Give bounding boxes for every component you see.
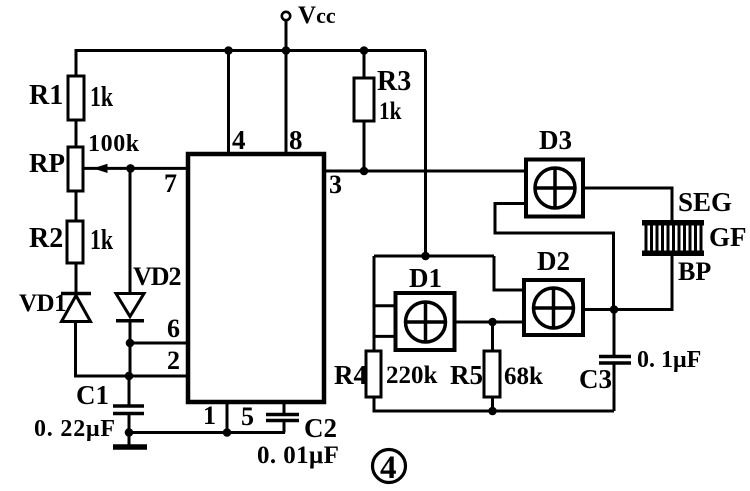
node pin1 junction (223, 428, 232, 437)
capacitor C2 (266, 415, 299, 421)
svg-text:100k: 100k (88, 131, 140, 157)
node D2 output junction (610, 305, 619, 314)
label D2 (537, 246, 570, 276)
wire VD1 to pin2 rail corner (76, 322, 130, 377)
label R5 (450, 360, 483, 390)
capacitor C3 (599, 357, 631, 364)
wire D3 feedback loop to D2 output node (495, 204, 614, 310)
value 100k (RP) (88, 131, 140, 157)
wire C3 bottom lead (613, 363, 616, 411)
svg-text:R4: R4 (334, 360, 367, 390)
potentiometer RP (68, 147, 83, 191)
svg-text:1k: 1k (90, 83, 113, 113)
pin 2 label (167, 346, 180, 375)
label Vcc (298, 2, 336, 29)
value 1k (R3) (379, 97, 402, 125)
gate D1 (396, 293, 455, 350)
value 1k (R2) (90, 226, 113, 256)
svg-text:GF: GF (709, 222, 747, 252)
svg-text:RP: RP (29, 148, 65, 178)
resistor R3 (354, 78, 374, 121)
svg-text:R5: R5 (450, 360, 483, 390)
label D1 (409, 263, 442, 293)
svg-text:68k: 68k (504, 363, 543, 390)
node pin2/C1 junction (125, 372, 134, 381)
value 0.22uF (C1) (34, 416, 116, 442)
label VD1 (19, 290, 66, 317)
pin 1 label (203, 401, 216, 430)
wire pin 1 stub (226, 403, 229, 433)
wire C3 top lead (613, 310, 616, 357)
node wiper junction (126, 164, 135, 173)
wire display backplane down to D2 node (614, 256, 672, 310)
wire left branch down to R4 (373, 256, 376, 351)
svg-text:3: 3 (329, 170, 342, 199)
wire C1 top lead (128, 376, 131, 406)
svg-text:R1: R1 (29, 80, 63, 111)
wire D2 output (583, 308, 672, 311)
wire C2 bottom lead (283, 421, 286, 433)
svg-text:R3: R3 (377, 66, 411, 97)
svg-text:1: 1 (203, 401, 216, 430)
pin 5 label (241, 402, 254, 431)
node SEG label (678, 187, 732, 217)
node D1 out / R5 junction (488, 318, 497, 327)
value 0.1uF (C3) (637, 347, 701, 373)
wire R5 top lead (491, 322, 494, 351)
value 1k (R1) (90, 83, 113, 113)
svg-text:2: 2 (167, 346, 180, 375)
wire pin 4 stub (227, 51, 230, 154)
node top rail pin4 junction (224, 46, 233, 55)
pin 7 label (164, 169, 177, 198)
svg-text:1k: 1k (90, 226, 113, 256)
wire R2 to VD1 (75, 263, 78, 293)
node A supply junction (421, 252, 430, 261)
diode VD1 (61, 294, 91, 322)
gate D2 (524, 280, 583, 335)
svg-text:1k: 1k (379, 97, 402, 125)
wire pin 5 stub (283, 403, 286, 415)
wire bottom left rail (129, 431, 285, 434)
resistor R1 (68, 76, 84, 120)
pin 3 label (329, 170, 342, 199)
svg-text:0. 22μF: 0. 22μF (34, 416, 116, 442)
pin 4 label (232, 125, 246, 155)
svg-text:D3: D3 (539, 125, 572, 155)
label VD2 (133, 262, 181, 291)
label D3 (539, 125, 572, 155)
LCD display electrode comb (642, 223, 704, 254)
figure number 4 (373, 450, 406, 483)
svg-text:C1: C1 (76, 380, 109, 410)
value 68k (R5) (504, 363, 543, 390)
value 220k (R4) (386, 362, 438, 389)
label C1 (76, 380, 109, 410)
svg-text:BP: BP (678, 257, 711, 286)
svg-text:D1: D1 (409, 263, 442, 293)
svg-text:5: 5 (241, 402, 254, 431)
wire pin 6 (130, 342, 187, 345)
wire R5 bottom lead (491, 397, 494, 411)
value 0.01uF (C2) (257, 442, 339, 469)
wire left rail to R1 (75, 49, 78, 76)
wire pin 3 output (326, 170, 526, 173)
resistor R2 (67, 221, 83, 263)
wire right supply drop (424, 51, 427, 257)
label R3 (377, 66, 411, 97)
wire C1 bottom lead (128, 414, 131, 447)
capacitor C1 (113, 406, 144, 414)
node top rail Vcc junction (282, 46, 291, 55)
RP wiper arrow (93, 164, 108, 173)
svg-text:220k: 220k (386, 362, 438, 389)
wire RP wiper to pin 7 (84, 167, 187, 170)
label C2 (304, 413, 337, 443)
label R4 (334, 360, 367, 390)
gate D3 (526, 160, 583, 217)
svg-text:8: 8 (289, 125, 303, 155)
svg-text:VD1: VD1 (19, 290, 66, 317)
node top rail R3 junction (360, 46, 369, 55)
svg-text:C3: C3 (579, 364, 612, 394)
resistor R5 (484, 351, 500, 397)
wire Vcc to pin 8 (285, 20, 288, 153)
svg-text:R2: R2 (29, 223, 63, 254)
wire RP to R2 (75, 191, 78, 221)
svg-text:Vcc: Vcc (298, 2, 336, 29)
svg-text:4: 4 (232, 125, 246, 155)
Vcc terminal (282, 12, 290, 20)
op-amp U1 timer IC box (188, 154, 324, 402)
diode VD2 (116, 294, 144, 321)
node BP label (678, 257, 711, 286)
svg-text:0. 1μF: 0. 1μF (637, 347, 701, 373)
svg-text:6: 6 (167, 314, 180, 343)
wire R3 bottom lead (363, 121, 366, 171)
svg-text:7: 7 (164, 169, 177, 198)
label R1 (29, 80, 63, 111)
svg-text:4: 4 (380, 450, 397, 486)
wire wiper junction down to VD2 (129, 168, 132, 293)
wire D1 output (455, 321, 524, 324)
ground (113, 444, 147, 450)
node C1/bottom junction (125, 428, 134, 437)
svg-text:VD2: VD2 (133, 262, 181, 291)
wire D1 lower input stub (374, 335, 396, 338)
node VD2/pin6 junction (126, 339, 135, 348)
wire node A horizontal (374, 255, 494, 258)
wire R4 bottom to rail (374, 397, 614, 411)
label RP (29, 148, 65, 178)
svg-text:0. 01μF: 0. 01μF (257, 442, 339, 469)
wire D1 upper input stub (374, 304, 396, 307)
node R5/bottom rail junction (488, 407, 497, 416)
node GF label (709, 222, 747, 252)
svg-text:C2: C2 (304, 413, 337, 443)
svg-text:D2: D2 (537, 246, 570, 276)
wire R1 to RP (75, 120, 78, 147)
wire right branch to D2 upper input (494, 256, 524, 290)
resistor R4 (366, 351, 381, 397)
svg-text:SEG: SEG (678, 187, 732, 217)
label R2 (29, 223, 63, 254)
pin 8 label (289, 125, 303, 155)
wire pin 2 (75, 375, 187, 378)
node R3/pin3 junction (360, 167, 369, 176)
wire top supply rail (76, 49, 426, 52)
label C3 (579, 364, 612, 394)
wire D3 output to display (583, 188, 672, 220)
wire R3 top lead (363, 51, 366, 79)
pin 6 label (167, 314, 180, 343)
wire VD2 to pin6 node (129, 321, 132, 376)
